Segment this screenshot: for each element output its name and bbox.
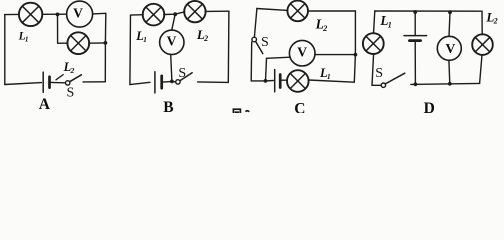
svg-text:V: V: [445, 41, 455, 56]
svg-text:S: S: [261, 35, 269, 50]
svg-text:S: S: [67, 86, 75, 101]
svg-text:S: S: [375, 66, 383, 81]
svg-text:V: V: [297, 44, 307, 59]
svg-text:V: V: [167, 34, 177, 49]
svg-text:A: A: [39, 96, 51, 113]
svg-text:C: C: [294, 101, 305, 114]
svg-text:S: S: [178, 66, 186, 81]
svg-text:V: V: [73, 5, 83, 20]
svg-text:B: B: [163, 99, 173, 113]
svg-text:D: D: [424, 100, 435, 113]
